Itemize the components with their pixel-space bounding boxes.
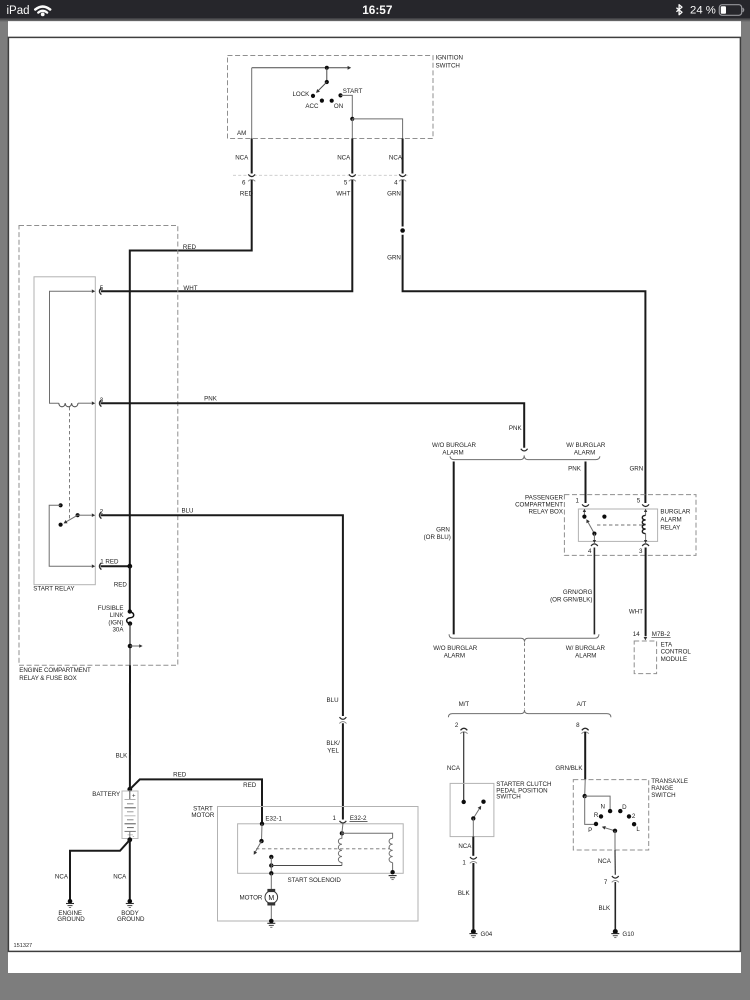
- connector cup pin2: [461, 728, 468, 730]
- fusible link FL (IGN) 30A: [128, 609, 132, 613]
- svg-text:SWITCH: SWITCH: [496, 794, 520, 801]
- svg-text:3: 3: [639, 548, 643, 555]
- svg-text:CONTROL: CONTROL: [661, 649, 692, 656]
- wire BLK to G10: [614, 882, 616, 929]
- svg-text:PASSENGER: PASSENGER: [525, 494, 564, 501]
- ground G10: [613, 929, 618, 934]
- svg-text:GRN: GRN: [387, 191, 401, 198]
- node GRN splice: [400, 228, 405, 233]
- svg-text:1: 1: [333, 815, 337, 822]
- arrow pin3: [92, 401, 95, 405]
- svg-text:4: 4: [394, 179, 398, 186]
- svg-text:NCA: NCA: [55, 874, 69, 881]
- transaxle pivot: [613, 829, 617, 833]
- svg-text:PNK: PNK: [204, 395, 218, 402]
- svg-text:W/O BURGLAR: W/O BURGLAR: [432, 442, 477, 449]
- solenoid contact stem: [261, 824, 264, 841]
- start relay common: [76, 513, 80, 517]
- svg-text:5: 5: [100, 285, 104, 292]
- svg-text:ALARM: ALARM: [442, 450, 463, 457]
- ground body: [126, 899, 134, 908]
- svg-text:G10: G10: [622, 931, 634, 938]
- svg-text:16:57: 16:57: [362, 3, 393, 17]
- svg-text:GROUND: GROUND: [57, 916, 85, 923]
- wire AM feed line: [252, 67, 348, 69]
- svg-text:ACC: ACC: [305, 103, 319, 110]
- svg-text:ALARM: ALARM: [575, 653, 596, 660]
- wire NCA to clutch switch: [463, 732, 465, 802]
- svg-text:LINK: LINK: [110, 612, 125, 619]
- svg-text:RED: RED: [114, 582, 128, 589]
- svg-text:BLU: BLU: [181, 507, 193, 514]
- wire BLU relay pin2 to connector: [101, 515, 343, 716]
- svg-text:COMPARTMENT: COMPARTMENT: [515, 502, 563, 509]
- solenoid mechanical link: [256, 848, 389, 850]
- ETA control module dashed box: [634, 641, 656, 674]
- burglar relay contact NC: [602, 515, 606, 519]
- svg-text:TRANSAXLE: TRANSAXLE: [651, 778, 688, 785]
- node battery negative junction: [127, 837, 132, 842]
- svg-text:5: 5: [344, 180, 348, 187]
- wire PNK relay pin3 to split: [101, 403, 525, 448]
- svg-text:ALARM: ALARM: [574, 450, 595, 457]
- wire AM down inside box: [251, 68, 253, 139]
- wire BLK/YEL connector to solenoid: [342, 723, 344, 819]
- arrow into ETA module: [644, 637, 648, 640]
- wire GRN/BLK to transaxle switch: [584, 732, 586, 780]
- iOS status bar: [0, 0, 750, 18]
- svg-text:W/ BURGLAR: W/ BURGLAR: [566, 442, 606, 449]
- wire hold coil return: [271, 865, 342, 867]
- wire RED to fusible link: [129, 566, 131, 611]
- svg-text:NCA: NCA: [389, 155, 403, 162]
- contact N: [608, 809, 612, 813]
- contact ACC: [320, 99, 324, 103]
- wire feed to P contact: [585, 796, 596, 824]
- svg-text:START: START: [343, 88, 363, 95]
- svg-text:1: 1: [576, 498, 580, 505]
- wire START contact to ST node: [341, 95, 353, 119]
- connector cup pin 4: [399, 174, 406, 176]
- clutch switch blade: [473, 808, 480, 819]
- svg-text:151327: 151327: [14, 943, 33, 949]
- wire motor to case ground: [270, 906, 272, 921]
- wire into transaxle switch: [584, 780, 587, 797]
- contact L: [632, 822, 636, 826]
- svg-text:BATTERY: BATTERY: [92, 791, 120, 798]
- svg-text:-: -: [133, 834, 135, 840]
- contact 2: [627, 814, 631, 818]
- wire coil feed to pull-in coil: [342, 833, 393, 838]
- wire NCA below clutch switch: [472, 837, 474, 856]
- svg-text:MOTOR: MOTOR: [191, 812, 214, 819]
- svg-text:NCA: NCA: [113, 874, 127, 881]
- svg-text:GRN/BLK: GRN/BLK: [555, 765, 583, 772]
- starter clutch pedal position switch box: [450, 783, 494, 836]
- connector cup pin 3 relay: [99, 400, 101, 407]
- clutch switch contact left: [462, 800, 466, 804]
- svg-text:D: D: [622, 804, 627, 811]
- burglar relay coil: [645, 511, 647, 516]
- svg-text:GRN: GRN: [629, 465, 643, 472]
- svg-text:2: 2: [455, 722, 459, 729]
- svg-text:14: 14: [633, 631, 640, 638]
- svg-text:BLU: BLU: [327, 697, 339, 704]
- ground solenoid case: [389, 875, 397, 877]
- pull-in coil L2: [389, 838, 393, 862]
- start relay blade: [66, 515, 78, 522]
- svg-text:E32-2: E32-2: [350, 815, 367, 822]
- wire NCA below transaxle: [614, 850, 616, 875]
- svg-text:ENGINE COMPARTMENT: ENGINE COMPARTMENT: [19, 667, 91, 674]
- connector cup pin3: [642, 544, 649, 546]
- wire ST down inside box: [351, 119, 353, 139]
- transaxle blade: [604, 828, 615, 831]
- node solenoid output a: [269, 855, 273, 859]
- svg-text:GRN: GRN: [436, 527, 450, 534]
- wire GRN lower segment to burglar relay: [403, 235, 646, 503]
- svg-text:8: 8: [576, 722, 580, 729]
- wire RED relay pin1 stub: [101, 565, 130, 567]
- svg-text:GRN/ORG: GRN/ORG: [563, 589, 593, 596]
- solenoid contact upper: [259, 839, 263, 843]
- svg-text:BLK/: BLK/: [326, 740, 340, 747]
- ground motor: [267, 922, 275, 924]
- arrow pin3 out: [644, 540, 647, 543]
- svg-text:ON: ON: [334, 103, 343, 110]
- connector cup pin7: [612, 876, 619, 878]
- svg-text:BLK: BLK: [598, 905, 611, 912]
- wire contact to pin1: [49, 505, 92, 566]
- connector cup pin8: [582, 728, 589, 730]
- wire GRN upper segment: [402, 180, 404, 227]
- wire coil to pin3: [78, 402, 92, 404]
- svg-text:RANGE: RANGE: [651, 785, 673, 792]
- solenoid blade: [255, 841, 261, 852]
- ground G04: [471, 929, 476, 934]
- arrow feed tap: [130, 645, 139, 647]
- ignition rotor pivot: [325, 80, 329, 84]
- wire BLK to G04: [472, 863, 474, 929]
- svg-text:PNK: PNK: [509, 425, 523, 432]
- start relay coil circuit wire: [50, 291, 92, 403]
- svg-text:6: 6: [242, 179, 246, 186]
- svg-text:(OR BLU): (OR BLU): [424, 534, 451, 541]
- connector cup pin 6: [248, 174, 255, 176]
- connector cup pin 2 relay: [99, 512, 101, 519]
- contact LOCK: [311, 94, 315, 98]
- svg-text:1 RED: 1 RED: [100, 559, 119, 566]
- connector cup pin1 clutch: [470, 857, 477, 859]
- svg-text:NCA: NCA: [458, 843, 472, 850]
- connector cup pin 5 relay: [99, 288, 101, 295]
- wire transaxle output: [614, 831, 616, 850]
- wire pull-in coil to case ground: [392, 863, 394, 873]
- transmission split brace: [448, 710, 611, 717]
- svg-text:30A: 30A: [112, 627, 124, 634]
- start relay lower contact: [59, 523, 63, 527]
- wire pin6 lead below box: [251, 139, 253, 174]
- svg-text:4: 4: [588, 548, 592, 555]
- node solenoid to motor: [269, 871, 273, 875]
- wire option stem dashed: [524, 643, 526, 710]
- start solenoid box: [238, 824, 404, 874]
- contact R: [599, 814, 603, 818]
- arrow pin4 out: [593, 540, 596, 543]
- burglar relay lower contact: [592, 532, 596, 536]
- wifi icon: [35, 7, 50, 13]
- svg-text:NCA: NCA: [598, 858, 612, 865]
- wire W/O branch GRN (OR BLU): [453, 462, 455, 635]
- arrow pin5: [92, 289, 95, 293]
- wire W/ branch PNK to relay pin1: [585, 462, 587, 504]
- wire pin4 lead below box: [402, 139, 404, 174]
- svg-text:RELAY: RELAY: [660, 524, 680, 531]
- contact P: [594, 822, 598, 826]
- connector row dashed line: [233, 174, 409, 176]
- node transaxle feed: [583, 794, 587, 798]
- contact D: [618, 809, 622, 813]
- connector cup PNK split: [521, 449, 528, 451]
- arrow pin5 into relay: [644, 509, 647, 512]
- svg-text:7: 7: [604, 879, 608, 886]
- svg-text:RED: RED: [183, 244, 197, 251]
- node battery positive junction: [127, 787, 132, 792]
- svg-text:BURGLAR: BURGLAR: [660, 508, 690, 515]
- svg-text:E32-1: E32-1: [265, 816, 282, 823]
- svg-text:BLK: BLK: [458, 890, 471, 897]
- node solenoid output b: [269, 863, 273, 867]
- node RED junction: [127, 564, 132, 569]
- clutch switch pivot: [471, 816, 475, 820]
- bluetooth icon: [676, 5, 682, 15]
- contact ON: [330, 99, 334, 103]
- burglar relay blade: [588, 521, 595, 533]
- wire WHT pin3 to ETA module: [645, 548, 647, 637]
- svg-text:RELAY BOX: RELAY BOX: [528, 509, 563, 516]
- transaxle range switch dashed box: [573, 780, 648, 850]
- svg-text:MOTOR: MOTOR: [239, 894, 262, 901]
- battery icon: [719, 5, 741, 16]
- svg-text:R: R: [594, 812, 599, 819]
- svg-text:1: 1: [462, 860, 466, 867]
- svg-text:WHT: WHT: [183, 285, 197, 292]
- svg-text:A/T: A/T: [577, 701, 587, 708]
- svg-text:WHT: WHT: [336, 191, 350, 198]
- svg-text:BLK: BLK: [116, 753, 129, 760]
- contact START: [338, 93, 342, 97]
- connector cup pin1 burglar: [582, 504, 589, 506]
- svg-text:WHT: WHT: [629, 609, 643, 616]
- wire GRN/ORG pin4 to merge: [593, 548, 595, 635]
- wire ST branch to pin4: [352, 119, 402, 139]
- svg-text:RED: RED: [173, 772, 187, 779]
- svg-text:iPad: iPad: [7, 5, 30, 17]
- svg-text:SWITCH: SWITCH: [651, 792, 675, 799]
- connector cup pin 1 relay: [99, 563, 101, 570]
- svg-text:GRN: GRN: [387, 255, 401, 262]
- ignition rotor blade: [317, 82, 327, 92]
- svg-text:AM: AM: [237, 130, 246, 137]
- svg-text:GROUND: GROUND: [117, 916, 145, 923]
- start relay K1 box: [34, 277, 95, 585]
- clutch switch contact right: [481, 800, 485, 804]
- wire to motor: [270, 873, 272, 889]
- svg-text:+: +: [132, 793, 136, 799]
- wire WHT ignition to start relay pin5: [101, 180, 352, 291]
- burglar alarm relay K2 box: [578, 509, 657, 541]
- svg-text:NCA: NCA: [447, 765, 461, 772]
- node AM feed junction: [325, 66, 329, 70]
- svg-text:N: N: [601, 804, 605, 811]
- connector cup pin 5: [349, 174, 356, 176]
- wire feed to N contact: [585, 796, 610, 811]
- wire E32-2 into coil feed: [342, 824, 343, 834]
- arrow pin1: [92, 564, 95, 568]
- svg-text:24 %: 24 %: [690, 5, 716, 17]
- arrow AM feed: [348, 66, 352, 70]
- arrow pin1 into relay: [583, 511, 585, 517]
- ignition switch S1 dashed box: [228, 56, 434, 139]
- node motor ground: [269, 919, 274, 924]
- svg-text:5: 5: [637, 498, 641, 505]
- svg-text:NCA: NCA: [337, 155, 351, 162]
- svg-text:YEL: YEL: [327, 747, 339, 754]
- svg-text:LOCK: LOCK: [292, 91, 310, 98]
- wire contact to pin4: [593, 534, 595, 541]
- start motor M1 box: [218, 807, 419, 922]
- svg-text:START SOLENOID: START SOLENOID: [288, 877, 342, 884]
- svg-text:ALARM: ALARM: [660, 516, 681, 523]
- connector cup pin4: [591, 544, 598, 546]
- svg-text:(IGN): (IGN): [108, 619, 123, 626]
- svg-text:RED: RED: [243, 782, 257, 789]
- svg-text:SWITCH: SWITCH: [436, 63, 460, 70]
- svg-text:PNK: PNK: [568, 465, 582, 472]
- svg-text:(OR GRN/BLK): (OR GRN/BLK): [550, 597, 592, 604]
- wire solenoid output: [270, 857, 272, 873]
- wire pivot stem: [326, 68, 328, 82]
- svg-text:W/O BURGLAR: W/O BURGLAR: [433, 645, 478, 652]
- node E32-1 terminal: [260, 822, 264, 826]
- svg-text:ALARM: ALARM: [444, 653, 465, 660]
- hold-in coil L1: [338, 833, 342, 865]
- connector cup E32-2: [340, 821, 347, 823]
- wire clutch switch output: [472, 818, 474, 836]
- wire BLK to battery: [129, 665, 131, 789]
- connector BLU to BLK/YEL: [340, 717, 347, 719]
- option merge brace: [449, 634, 599, 642]
- engine compartment relay and fuse box dashed outline: [19, 226, 178, 666]
- wire NCA to engine ground: [70, 840, 130, 900]
- passenger compartment relay box dashed outline: [564, 495, 696, 556]
- node coil feed: [340, 831, 344, 835]
- svg-text:G04: G04: [481, 931, 493, 938]
- svg-text:L: L: [636, 826, 640, 833]
- connector cup pin5 burglar: [642, 504, 649, 506]
- svg-text:NCA: NCA: [235, 155, 249, 162]
- svg-text:IGNITION: IGNITION: [436, 55, 464, 62]
- wire RED battery to start motor: [130, 779, 262, 823]
- svg-text:P: P: [588, 827, 592, 834]
- wire common to pin2: [78, 514, 92, 516]
- svg-text:MODULE: MODULE: [661, 656, 687, 663]
- svg-text:START RELAY: START RELAY: [33, 586, 74, 593]
- node feed tap: [128, 644, 133, 649]
- start relay coil L: [59, 403, 78, 407]
- svg-text:W/ BURGLAR: W/ BURGLAR: [566, 645, 606, 652]
- wire fusible link to tap: [129, 624, 131, 666]
- burglar relay contact common: [582, 515, 586, 519]
- svg-text:2: 2: [632, 813, 636, 820]
- option split brace upper: [450, 455, 600, 459]
- node case ground: [390, 870, 394, 874]
- svg-text:RELAY & FUSE BOX: RELAY & FUSE BOX: [19, 675, 77, 682]
- wire pin5 lead below box: [351, 139, 353, 174]
- start relay mechanical link: [69, 407, 71, 519]
- start relay contact upper: [59, 503, 63, 507]
- wire NCA to body ground: [129, 840, 131, 900]
- svg-text:ETA: ETA: [661, 641, 673, 648]
- wire RED ignition to fuse box: [130, 180, 252, 566]
- svg-text:M: M: [268, 895, 274, 902]
- svg-text:FUSIBLE: FUSIBLE: [98, 605, 124, 612]
- arrow pin2: [92, 513, 95, 517]
- burglar relay mechanical link: [597, 524, 643, 526]
- node ST branch: [350, 117, 354, 121]
- svg-text:M/T: M/T: [459, 701, 470, 708]
- ground engine: [66, 899, 74, 908]
